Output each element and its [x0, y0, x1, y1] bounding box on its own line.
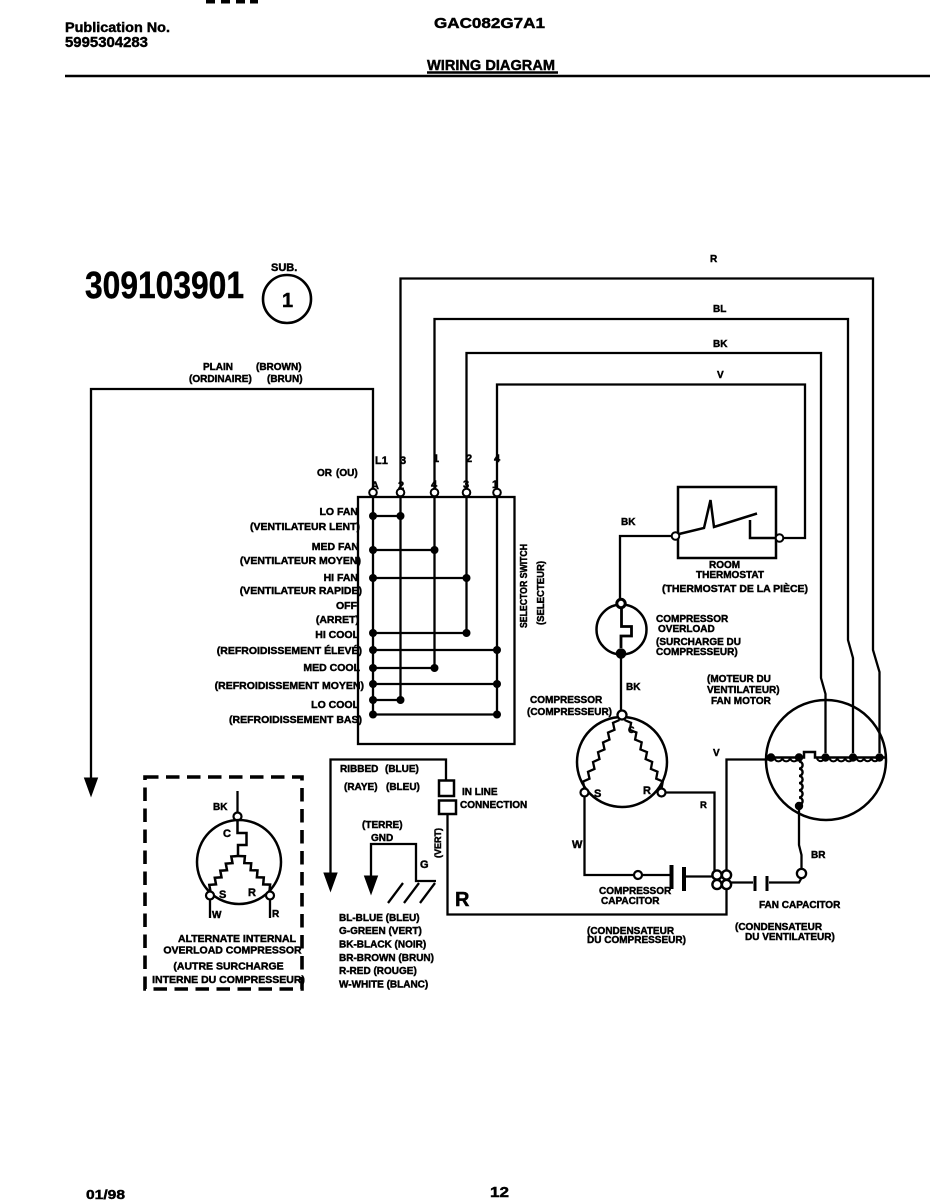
svg-text:L1: L1 [375, 455, 388, 467]
alternate overload dashed box [145, 777, 302, 989]
svg-text:(AUTRE SURCHARGE: (AUTRE SURCHARGE [173, 961, 283, 973]
svg-text:1: 1 [282, 290, 293, 312]
top edge partial text [206, 0, 258, 4]
compressor overload top terminal [617, 599, 625, 607]
svg-text:BL-BLUE (BLEU): BL-BLUE (BLEU) [339, 913, 420, 924]
wire V junction to fan motor [727, 760, 773, 872]
svg-text:SELECTOR SWITCH: SELECTOR SWITCH [519, 544, 530, 628]
svg-text:12: 12 [490, 1185, 509, 1200]
svg-text:R: R [272, 909, 280, 920]
alternate compressor run winding [238, 856, 270, 892]
svg-text:(THERMOSTAT DE LA PIÈCE): (THERMOSTAT DE LA PIÈCE) [662, 582, 808, 595]
alternate compressor start winding [209, 856, 238, 892]
sub revision circle 1 [263, 275, 311, 323]
selector switch contact dots [369, 512, 501, 719]
svg-text:R-RED (ROUGE): R-RED (ROUGE) [339, 966, 417, 977]
fan motor winding coil bumps [775, 758, 879, 762]
svg-text:CONNECTION: CONNECTION [460, 800, 527, 811]
svg-text:(REFROIDISSEMENT MOYEN): (REFROIDISSEMENT MOYEN) [215, 680, 364, 692]
svg-text:R: R [643, 785, 651, 797]
svg-text:(ORDINAIRE): (ORDINAIRE) [189, 374, 252, 385]
svg-text:R: R [248, 887, 256, 899]
svg-text:OFF: OFF [336, 600, 358, 612]
compressor capacitor plates [642, 874, 670, 876]
svg-text:(TERRE): (TERRE) [362, 820, 403, 831]
svg-text:LO FAN: LO FAN [320, 506, 359, 518]
fan motor circle [766, 700, 886, 820]
svg-text:W: W [212, 910, 222, 921]
svg-text:V: V [717, 370, 724, 381]
svg-text:V: V [713, 748, 720, 759]
svg-text:RIBBED: RIBBED [340, 764, 378, 775]
svg-text:G: G [420, 859, 429, 871]
header rule [65, 75, 930, 78]
svg-text:(REFROIDISSEMENT BAS): (REFROIDISSEMENT BAS) [229, 714, 362, 726]
wire ribbed blue to in-line connection [331, 760, 447, 874]
svg-text:2: 2 [466, 453, 472, 465]
alternate compressor lead wires W R [209, 900, 211, 919]
svg-text:LO COOL: LO COOL [311, 699, 359, 711]
svg-text:C: C [223, 828, 231, 840]
svg-text:(VENTILATEUR RAPIDE): (VENTILATEUR RAPIDE) [240, 585, 362, 597]
svg-text:PLAIN: PLAIN [203, 362, 233, 373]
svg-text:DU COMPRESSEUR): DU COMPRESSEUR) [587, 935, 686, 946]
room thermostat box [678, 487, 776, 558]
svg-text:HI FAN: HI FAN [324, 572, 358, 584]
svg-text:BK: BK [626, 682, 641, 693]
alternate compressor caption [152, 933, 305, 986]
svg-text:5995304283: 5995304283 [65, 35, 148, 51]
svg-text:(RAYE): (RAYE) [344, 782, 378, 793]
alternate compressor circle [197, 820, 281, 904]
svg-text:ALTERNATE INTERNAL: ALTERNATE INTERNAL [178, 933, 297, 945]
capacitor junction cluster [712, 870, 731, 889]
compressor run winding [625, 720, 663, 789]
svg-text:GND: GND [371, 833, 393, 844]
ground symbol hatches [388, 883, 435, 903]
arrow ground off-page [365, 876, 378, 894]
svg-text:(OU): (OU) [336, 468, 358, 479]
svg-text:SUB.: SUB. [271, 262, 297, 274]
fan capacitor BR terminal [797, 869, 806, 878]
wire BR fan motor to fan capacitor [799, 810, 802, 869]
compressor start winding [583, 720, 620, 789]
fan capacitor plates [732, 881, 754, 883]
wire V from selector pin to thermostat [497, 385, 805, 539]
wire BK overload to compressor [620, 658, 622, 710]
svg-text:(COMPRESSEUR): (COMPRESSEUR) [527, 707, 612, 718]
svg-text:G-GREEN (VERT): G-GREEN (VERT) [339, 926, 422, 937]
svg-text:3: 3 [400, 455, 406, 467]
svg-text:Publication No.: Publication No. [65, 19, 170, 35]
room thermostat terminals [672, 532, 680, 540]
svg-text:IN LINE: IN LINE [462, 787, 498, 798]
svg-text:(VENTILATEUR MOYEN): (VENTILATEUR MOYEN) [240, 555, 361, 567]
svg-text:THERMOSTAT: THERMOSTAT [696, 570, 764, 581]
alternate compressor S R terminals [206, 892, 214, 900]
in line connection plug [439, 781, 454, 797]
compressor terminals S and R [581, 789, 589, 797]
svg-text:CAPACITOR: CAPACITOR [601, 896, 660, 907]
svg-text:R: R [455, 889, 470, 911]
svg-text:FAN MOTOR: FAN MOTOR [711, 696, 772, 707]
svg-text:COMPRESSEUR): COMPRESSEUR) [656, 647, 738, 658]
arrow L1 off-page down [85, 778, 98, 796]
svg-text:DU VENTILATEUR): DU VENTILATEUR) [745, 932, 835, 943]
wire BL from selector pin to fan motor [435, 319, 854, 753]
svg-text:OR: OR [317, 468, 333, 479]
svg-text:BK: BK [213, 802, 228, 813]
compressor overload bottom terminal [617, 649, 626, 658]
svg-text:BK-BLACK (NOIR): BK-BLACK (NOIR) [339, 940, 426, 951]
svg-text:HI COOL: HI COOL [315, 629, 359, 641]
selector switch contact rows [373, 516, 497, 715]
svg-text:MED COOL: MED COOL [303, 662, 360, 674]
alternate compressor top terminal [234, 813, 242, 821]
svg-text:(BRUN): (BRUN) [267, 374, 303, 385]
svg-text:(VENTILATEUR LENT): (VENTILATEUR LENT) [250, 521, 360, 533]
wire BK from selector pin to fan motor [467, 353, 826, 753]
svg-text:S: S [594, 788, 601, 800]
room thermostat moving contact arm [679, 500, 757, 534]
fan motor main winding [769, 752, 886, 758]
svg-text:OVERLOAD COMPRESSOR: OVERLOAD COMPRESSOR [163, 945, 302, 957]
room thermostat fixed contact [750, 520, 775, 538]
svg-text:4: 4 [494, 453, 501, 465]
svg-text:W-WHITE (BLANC): W-WHITE (BLANC) [339, 980, 428, 991]
alternate compressor lead wire [236, 791, 238, 813]
svg-text:R: R [710, 254, 718, 265]
selector switch internal bus wires [373, 496, 497, 715]
svg-text:COMPRESSOR: COMPRESSOR [530, 695, 603, 706]
compressor overload circle [597, 605, 647, 655]
svg-text:BL: BL [713, 304, 726, 315]
svg-text:OVERLOAD: OVERLOAD [658, 624, 715, 635]
fan motor winding taps [767, 753, 884, 761]
svg-text:(VERT): (VERT) [433, 828, 443, 858]
svg-text:BR: BR [811, 850, 826, 861]
wire BK thermostat to overload [620, 536, 672, 598]
selector switch pin terminals [369, 489, 501, 497]
wire R compressor R terminal to junction [666, 793, 715, 872]
compressor overload bimetal element [621, 608, 632, 648]
alternate compressor internal overload element [238, 821, 247, 857]
svg-text:INTERNE DU COMPRESSEUR): INTERNE DU COMPRESSEUR) [152, 974, 305, 986]
svg-text:FAN CAPACITOR: FAN CAPACITOR [759, 900, 841, 911]
svg-text:(SELECTEUR): (SELECTEUR) [536, 561, 547, 625]
svg-text:(ARRET): (ARRET) [316, 614, 359, 626]
ground wires [371, 844, 436, 881]
svg-text:BK: BK [621, 517, 636, 528]
svg-text:S: S [219, 889, 226, 901]
svg-text:VENTILATEUR): VENTILATEUR) [707, 685, 780, 696]
svg-text:01/98: 01/98 [86, 1187, 125, 1200]
wire R from selector pin to fan motor [401, 279, 880, 754]
svg-text:R: R [700, 800, 707, 811]
svg-text:BK: BK [713, 339, 728, 350]
svg-text:(BROWN): (BROWN) [256, 362, 302, 373]
fan motor auxiliary winding vertical [799, 762, 803, 805]
compressor top terminal C [618, 711, 627, 720]
wire W compressor S to capacitor [585, 797, 635, 876]
compressor circle [577, 717, 667, 807]
wire L1 plain/brown from arrow to selector pin A [91, 389, 373, 782]
compressor capacitor terminal [634, 871, 642, 879]
svg-text:BR-BROWN (BRUN): BR-BROWN (BRUN) [339, 953, 434, 964]
selector switch box [358, 497, 515, 744]
svg-text:(MOTEUR DU: (MOTEUR DU [707, 674, 771, 685]
svg-text:MED FAN: MED FAN [312, 541, 359, 553]
svg-text:(REFROIDISSEMENT ÉLEVÉ): (REFROIDISSEMENT ÉLEVÉ) [217, 644, 362, 657]
svg-text:309103901: 309103901 [85, 265, 244, 307]
svg-text:GAC082G7A1: GAC082G7A1 [434, 15, 545, 32]
arrow ribbed blue off-page [324, 873, 337, 891]
fan motor auxiliary winding tap dot [795, 802, 803, 810]
wire R bottom run junction to in-line connection [448, 814, 727, 915]
selector switch position labels [215, 506, 364, 726]
svg-text:W: W [572, 839, 583, 851]
svg-text:(BLEU): (BLEU) [386, 782, 420, 793]
svg-text:(BLUE): (BLUE) [385, 764, 419, 775]
svg-text:1: 1 [433, 453, 439, 465]
